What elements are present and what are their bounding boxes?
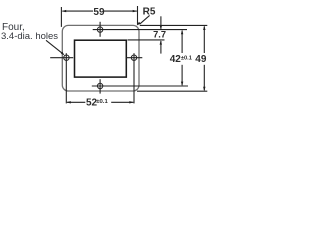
dimension 59: right extension line	[137, 6, 139, 25]
top mounting hole	[97, 27, 102, 32]
7.7 lower arrow (pointing up to cutout line)	[160, 41, 162, 54]
right hole centerline horizontal	[126, 57, 143, 59]
bottom mounting hole	[97, 83, 102, 88]
svg-text:49: 49	[195, 54, 207, 65]
dimension 42 vertical line lower part with down arrow	[181, 65, 183, 85]
dimension 49 vertical line upper part with up arrow	[203, 26, 205, 53]
7.7 upper arrow (pointing down to hole centerline)	[160, 16, 162, 29]
top hole centerline vertical	[99, 22, 101, 37]
leader line to left hole	[46, 40, 63, 53]
top edge extension line (for 49)	[140, 24, 208, 26]
svg-text:59: 59	[93, 7, 105, 18]
7.7 lower extension line (from cutout top edge)	[128, 39, 165, 41]
bottom hole centerline vertical	[99, 79, 101, 93]
left mounting hole	[64, 55, 69, 60]
inner rectangle (panel cutout)	[75, 40, 127, 77]
dimension 52: line right part with arrow	[111, 101, 133, 103]
right hole centerline vertical + 52 extension	[133, 53, 135, 103]
bottom hole centerline horizontal (extends right for 42 dim)	[92, 85, 188, 87]
svg-text:7.7: 7.7	[153, 29, 166, 39]
dimension 59: line left part with arrow	[62, 10, 93, 12]
dimension 42 vertical line upper part with up arrow	[181, 31, 183, 53]
bottom edge extension line (for 49)	[137, 90, 207, 92]
svg-text:±0.1: ±0.1	[181, 56, 192, 62]
dimension 49 vertical line lower part with down arrow	[203, 65, 205, 91]
svg-text:±0.1: ±0.1	[96, 99, 108, 105]
top hole centerline horizontal (extends right for 7.7 and 42 dims)	[93, 29, 187, 31]
svg-text:42: 42	[170, 54, 182, 65]
left hole centerline vertical + 52 extension	[65, 53, 67, 103]
outer rounded-corner outline (adapter), R5 corners	[62, 25, 139, 91]
R5 leader with arrow to corner	[140, 15, 150, 24]
svg-text:3.4-dia. holes: 3.4-dia. holes	[1, 31, 58, 42]
right mounting hole	[131, 55, 136, 60]
dimension 52: line left part with arrow	[67, 101, 85, 103]
dimension 59: line right part with arrow	[104, 10, 137, 12]
dimension 59: left extension line	[60, 7, 62, 27]
left hole centerline horizontal	[50, 57, 73, 59]
